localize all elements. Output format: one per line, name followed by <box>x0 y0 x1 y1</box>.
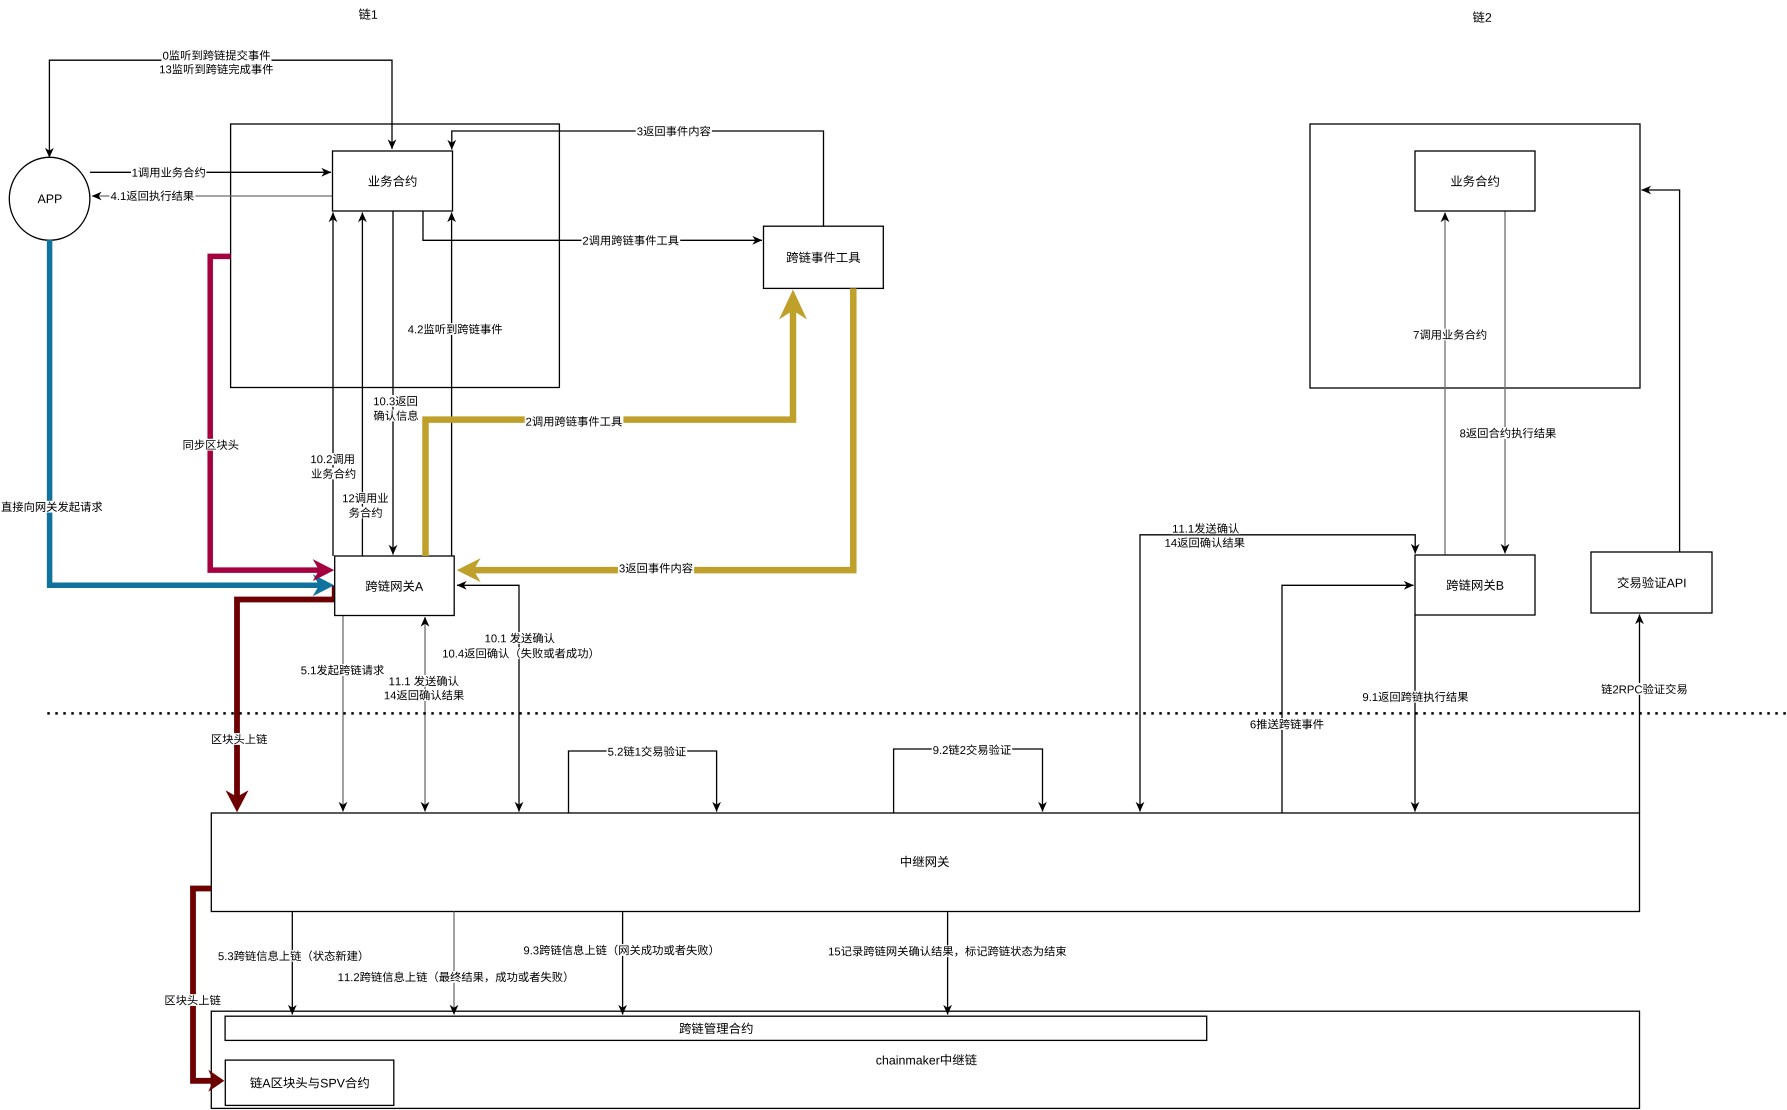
box 跨链网关A <box>335 556 455 616</box>
text 业务合约 (chain1 box title) <box>369 175 417 186</box>
label 确认信息 <box>372 410 419 422</box>
text 跨链网关A (box title) <box>366 580 423 591</box>
label 10.1 发送确认 <box>484 632 556 644</box>
label 13监听到跨链完成事件 <box>159 63 275 75</box>
wire 11.1发送确认/14返回确认结果 gateway A <-> relay <box>424 617 426 812</box>
text 链A区块头与SPV合约 (box title) <box>250 1077 369 1088</box>
wire 9.1返回跨链执行结果 gateway B -> relay <box>1414 615 1416 812</box>
wire 链2RPC验证交易 relay -> 交易验证API <box>1639 615 1641 814</box>
wire 5.3跨链信息上链 relay -> management contract <box>291 912 293 1015</box>
label 11.1发送确认 <box>1172 522 1241 534</box>
thick blue arrow 直接向网关发起请求 APP -> gateway A <box>50 240 320 585</box>
wire 3返回事件内容 event tool -> business contract (chain1) <box>452 131 824 226</box>
label 5.2链1交易验证 <box>607 745 688 757</box>
box chainmaker中继链 <box>211 1011 1639 1108</box>
wire 6推送跨链事件 relay -> gateway B <box>1282 585 1414 813</box>
wire 4.1返回执行结果 business contract -> APP <box>92 195 333 197</box>
label 14返回确认结果 (right) <box>1164 537 1246 549</box>
wire 12调用业务合约 gateway A -> business contract <box>361 213 363 557</box>
label 14返回确认结果 <box>383 689 465 701</box>
box 链A区块头与SPV合约 <box>225 1060 393 1105</box>
label 10.4返回确认（失败或者成功） <box>442 647 594 659</box>
box 交易验证API <box>1591 552 1712 613</box>
dotted separator line between chains and relay layer <box>47 712 1787 715</box>
text APP (node title) <box>38 195 62 204</box>
label 11.2跨链信息上链（最终结果，成功或者失败） <box>337 971 568 983</box>
label 6推送跨链事件 <box>1249 718 1325 730</box>
wire 9.3跨链信息上链 relay -> management contract <box>622 912 624 1015</box>
label 4.2监听到跨链事件 <box>407 323 504 335</box>
label 同步区块头 <box>182 439 240 451</box>
label 3返回事件内容 <box>636 125 712 137</box>
wire 0/13 listen events: APP <-> business contract (chain1) <box>49 60 392 157</box>
chain1 container box <box>231 124 560 388</box>
box 跨链网关B <box>1415 555 1535 615</box>
wire 5.2链1交易验证 relay self-loop <box>569 751 717 813</box>
label 1调用业务合约 <box>131 166 206 178</box>
box 跨链管理合约 <box>225 1016 1207 1040</box>
wire 8返回合约执行结果 business contract -> gateway B <box>1504 211 1506 554</box>
label 12调用业 <box>342 492 390 504</box>
wire 11.1发送确认/14返回确认结果 relay <-> gateway B <box>1140 535 1415 812</box>
wire 10.3返回确认信息 business contract -> gateway A <box>392 211 394 555</box>
wire 5.1发起跨链请求 gateway A -> relay <box>342 616 344 812</box>
label 务合约 (12 second line) <box>348 507 384 519</box>
box 业务合约 (chain1) <box>333 151 453 211</box>
label 4.1返回执行结果 <box>109 190 195 202</box>
wire 7调用业务合约 gateway B -> business contract (chain2) <box>1444 213 1446 556</box>
text 交易验证API (box title) <box>1618 577 1686 589</box>
thick gold arrow 3返回事件内容 event tool -> gateway A <box>474 288 854 570</box>
label 0监听到跨链提交事件 <box>162 49 272 61</box>
thick dark-red arrow 区块头上链 relay -> SPV contract <box>193 889 213 1081</box>
label 5.3跨链信息上链（状态新建） <box>217 950 363 962</box>
box 中继网关 relay gateway <box>211 813 1639 912</box>
chain2 container box <box>1310 124 1640 388</box>
label 区块头上链 (upper dark red) <box>211 733 269 745</box>
wire 10.2调用业务合约 gateway A -> business contract <box>332 213 334 557</box>
box 跨链事件工具 <box>764 226 884 288</box>
thick crimson arrow 同步区块头 chain1 -> gateway A <box>210 256 319 570</box>
label 10.3返回 <box>373 395 419 407</box>
thick dark-red arrow 区块头上链 gateway A -> relay <box>237 585 335 797</box>
label 2调用跨链事件工具 <box>582 234 681 246</box>
text 跨链事件工具 (box title) <box>787 252 860 263</box>
wire 4.2监听到跨链事件 gateway A -> business contract <box>451 213 453 557</box>
label 9.1返回跨链执行结果 <box>1361 691 1469 703</box>
label 链2 (chain 2 title) <box>1473 11 1491 22</box>
label 区块头上链 (lower dark red) <box>164 994 222 1006</box>
label 链1 (chain 1 title) <box>359 8 377 19</box>
label 直接向网关发起请求 <box>0 501 104 513</box>
label 2调用跨链事件工具 (gold) <box>525 415 624 427</box>
wire 2调用跨链事件工具 business contract -> event tool <box>423 211 762 240</box>
text 跨链网关B (box title) <box>1447 579 1504 590</box>
label 15记录跨链网关确认结果，标记跨链状态为结束 <box>827 945 1067 957</box>
wire 1调用业务合约 APP -> business contract <box>90 171 331 173</box>
wire 11.2跨链信息上链 relay -> management contract <box>453 912 455 1015</box>
label 10.2调用 <box>310 453 356 465</box>
label 3返回事件内容 (gold) <box>618 562 694 574</box>
label 业务合约 (10.2 second line) <box>310 468 357 480</box>
text 跨链管理合约 (box title) <box>680 1023 753 1034</box>
label 5.1发起跨链请求 <box>300 664 386 676</box>
label 7调用业务合约 <box>1412 329 1488 341</box>
label 8返回合约执行结果 <box>1459 427 1558 439</box>
wire 9.2链2交易验证 relay self-loop <box>894 749 1043 813</box>
text 业务合约 (chain2 box title) <box>1451 175 1499 186</box>
text chainmaker中继链 (box title) <box>876 1054 976 1065</box>
thick gold arrow 2调用跨链事件工具 gateway A -> event tool <box>426 311 794 557</box>
wire 交易验证API -> chain2 box <box>1642 190 1680 552</box>
label 9.3跨链信息上链（网关成功或者失败） <box>522 944 713 956</box>
label 11.1 发送确认 <box>388 675 460 687</box>
wire 10.1发送确认/10.4返回确认 relay <-> gateway A <box>457 585 519 811</box>
box 业务合约 (chain2) <box>1415 151 1535 211</box>
text 中继网关 (relay box title) <box>901 856 949 867</box>
wire 15记录跨链网关确认结果 relay -> management contract <box>947 912 949 1015</box>
node APP <box>9 157 90 240</box>
label 9.2链2交易验证 <box>932 744 1013 756</box>
label 链2RPC验证交易 <box>1600 683 1688 695</box>
